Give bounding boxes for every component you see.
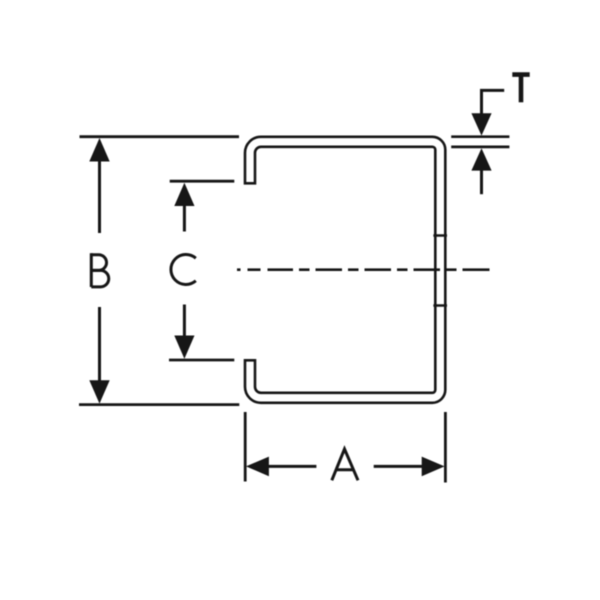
web break tick upper bbox=[433, 234, 447, 237]
dimension B top extension line bbox=[80, 135, 240, 138]
dimension B bottom extension line bbox=[79, 403, 239, 406]
dimension C lower stem bbox=[183, 305, 186, 338]
C-channel profile inner white fill bbox=[250, 142, 440, 398]
dimension B upper stem bbox=[98, 160, 101, 233]
dimension B up arrowhead bbox=[89, 138, 109, 162]
dimension T down arrowhead bbox=[471, 113, 491, 135]
dimension B lower stem bbox=[98, 307, 101, 382]
centerline (dash-dot) bbox=[237, 268, 490, 271]
label T bbox=[512, 75, 529, 103]
dimension A left extension line bbox=[244, 412, 247, 482]
dimension C up arrowhead bbox=[174, 183, 194, 206]
C-channel profile outline (outer black) bbox=[250, 142, 440, 398]
dimension A line left segment bbox=[268, 465, 317, 468]
label B bbox=[91, 253, 108, 287]
dimension A line right segment bbox=[374, 465, 423, 468]
dimension T upper extension line bbox=[451, 135, 509, 138]
dimension C down arrowhead bbox=[174, 336, 194, 359]
label A bbox=[332, 449, 358, 480]
dimension T leader line bbox=[482, 90, 505, 114]
dimension T lower extension line bbox=[451, 146, 509, 149]
dimension T up arrowhead bbox=[471, 148, 491, 170]
dimension B down arrowhead bbox=[89, 380, 109, 403]
web break tick lower bbox=[433, 304, 447, 307]
dimension C bottom extension line bbox=[169, 359, 234, 362]
label C bbox=[171, 255, 196, 285]
dimension A right extension line bbox=[444, 412, 447, 483]
dimension T lower stem bbox=[480, 169, 483, 194]
dimension C upper stem bbox=[183, 205, 186, 232]
dimension C top extension line bbox=[170, 180, 235, 183]
dimension A right arrowhead bbox=[422, 457, 445, 477]
dimension A left arrowhead bbox=[246, 457, 269, 477]
